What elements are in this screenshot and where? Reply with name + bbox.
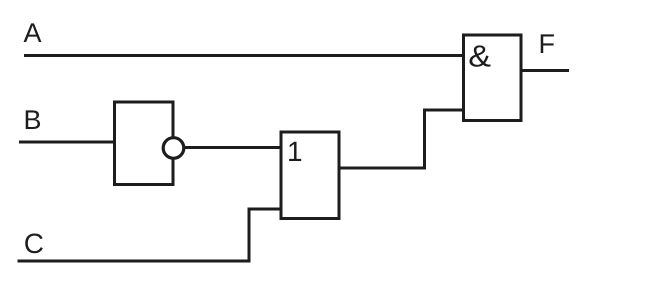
wire A to U3 pin 1 — [24, 54, 463, 57]
wire U1 output to U2 pin 1 — [185, 146, 282, 149]
svg-text:A: A — [24, 18, 42, 48]
svg-text:1: 1 — [287, 136, 303, 167]
svg-text:&: & — [468, 40, 491, 74]
OR gate U2 (IEC box) — [281, 132, 339, 219]
svg-text:F: F — [539, 29, 556, 59]
wire B to U1 input — [19, 141, 114, 144]
svg-text:B: B — [24, 105, 42, 135]
U3 value label & — [468, 40, 491, 74]
wire U2 output to U3 pin 2 — [339, 110, 463, 168]
inverter U1 (NOT gate, IEC box) — [115, 102, 174, 185]
wire C to U2 pin 2 — [18, 209, 282, 261]
svg-text:C: C — [24, 228, 44, 259]
inversion bubble on U1 output — [163, 138, 184, 159]
AND gate U3 (IEC box) — [464, 35, 522, 121]
wire U3 output to F — [521, 69, 569, 72]
